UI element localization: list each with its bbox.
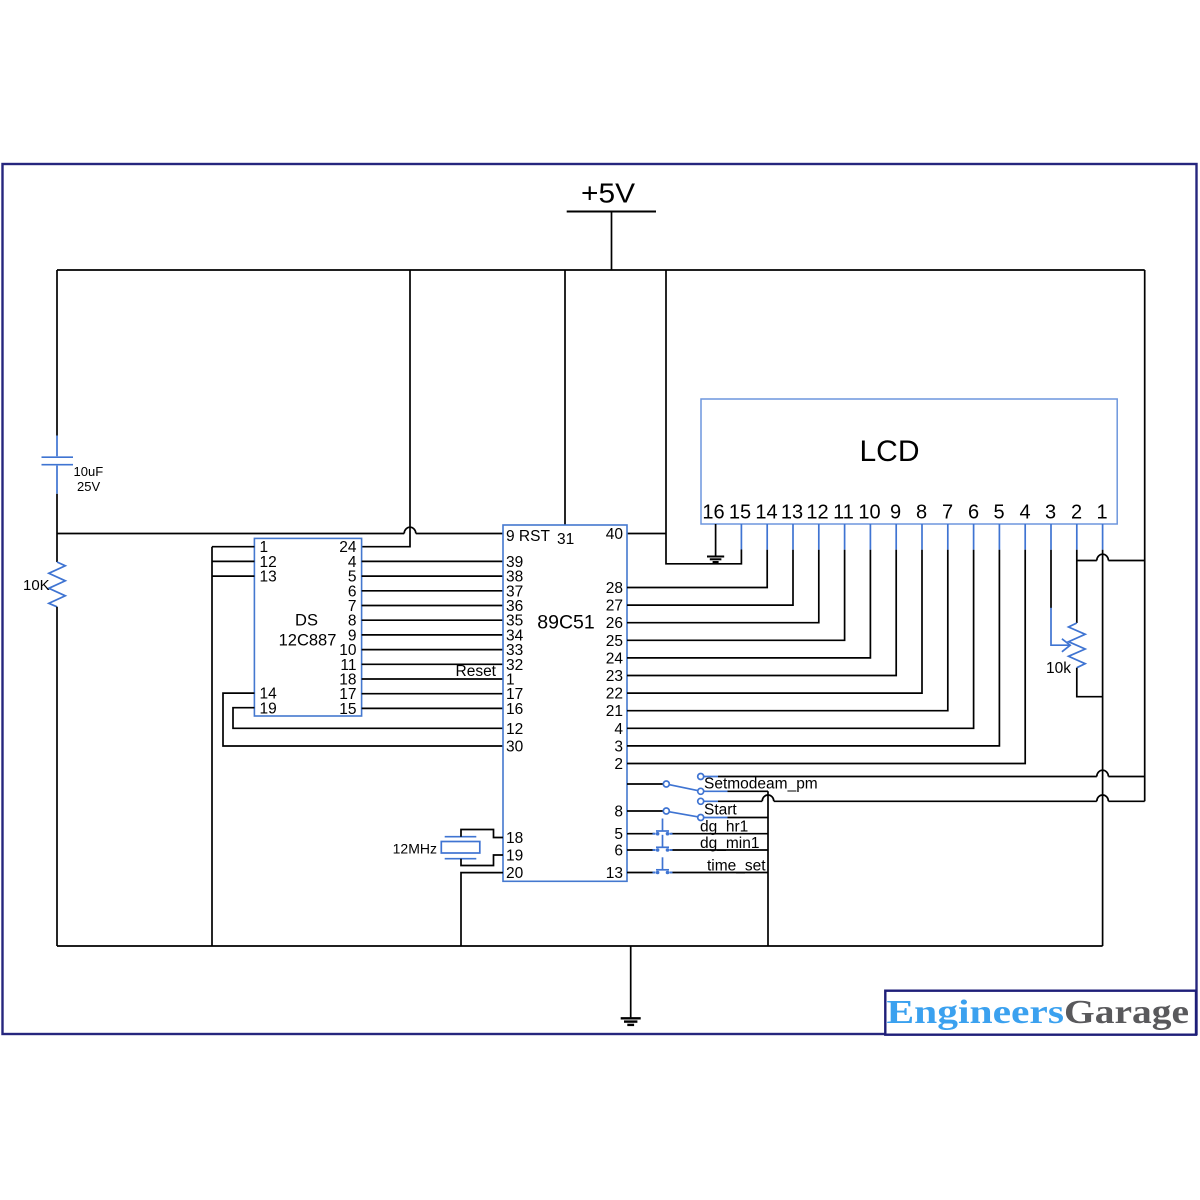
svg-text:4: 4 (1019, 502, 1030, 524)
svg-text:4: 4 (614, 721, 623, 738)
switch SW1 Setmodeam_pm SPDT (663, 774, 727, 795)
wire hop over LCD pin 1 vertical (1097, 554, 1109, 560)
wire ground stem (630, 946, 632, 1018)
svg-text:26: 26 (606, 615, 623, 632)
wire bottom ground rail (57, 945, 1103, 947)
wire crystal top to 89C51 pin 18 (461, 830, 503, 838)
svg-text:Setmodeam_pm: Setmodeam_pm (704, 776, 818, 793)
logo EngineersGarage (885, 991, 1196, 1035)
svg-text:24: 24 (606, 650, 624, 667)
svg-text:13: 13 (781, 502, 803, 524)
svg-text:10uF: 10uF (74, 464, 104, 479)
svg-text:3: 3 (614, 738, 623, 755)
wire right VCC drop to LCD pin 2 branch (1144, 270, 1146, 561)
wire DS pin 14 to 89C51 pin 30 (223, 693, 503, 746)
wire 89C51 pin 27 to LCD pin 13 (627, 550, 793, 605)
wire DS pin 19 to 89C51 pin 12 (233, 708, 503, 729)
wire 89C51 pin 40 to VCC branch (627, 533, 666, 535)
svg-text:15: 15 (339, 701, 356, 718)
crystal X1 12MHz (441, 837, 480, 859)
U2 right pin labels (606, 526, 624, 882)
svg-text:16: 16 (702, 502, 724, 524)
wire 89C51 pin 13 row time_set (627, 872, 768, 874)
svg-text:LCD: LCD (859, 435, 919, 468)
wire potentiometer bottom to LCD pin1 ground line (1077, 668, 1103, 697)
wire reset net to 89C51 pin 9 with hop (57, 533, 503, 535)
wire right VCC loop vertical (1144, 561, 1146, 802)
svg-text:20: 20 (506, 865, 524, 882)
wire 89C51 pin 24 to LCD pin 10 (627, 550, 870, 658)
LCD pin number labels 16..1 (702, 502, 1107, 524)
svg-text:dg_min1: dg_min1 (700, 835, 759, 852)
svg-text:22: 22 (606, 686, 623, 703)
wire 89C51 pin 5 row dg_hr1 (627, 833, 768, 835)
svg-text:16: 16 (506, 701, 523, 718)
border frame (3, 164, 1197, 1034)
U2 left pin labels (506, 554, 524, 882)
wire 89C51 pin 28 to LCD pin 14 (627, 550, 767, 588)
wire hop over LCD pin1 line (1097, 770, 1109, 776)
svg-text:27: 27 (606, 598, 623, 615)
svg-text:10: 10 (858, 502, 880, 524)
svg-text:DS: DS (295, 612, 318, 630)
svg-text:8: 8 (916, 502, 927, 524)
ground symbol main (621, 1018, 641, 1025)
svg-text:12: 12 (806, 502, 828, 524)
svg-text:dg_hr1: dg_hr1 (700, 819, 748, 836)
U1 right pin labels 24 4 5 6 7 8 9 10 11 18 17 15 (339, 539, 357, 718)
LCD pin 16 lead to ground (715, 524, 717, 556)
wire SW1 upper throw to VCC loop with hop (718, 776, 1145, 778)
svg-text:Engineers: Engineers (887, 994, 1065, 1031)
wire LCD pin2 VCC link with hop over pin1 line (1077, 560, 1145, 562)
pushbutton SW3 dg_hr1 (653, 819, 673, 836)
wire VCC drop to 89C51 pin 40 and LCD pin 15 (666, 270, 741, 564)
svg-text:89C51: 89C51 (537, 612, 594, 634)
svg-text:31: 31 (557, 531, 574, 548)
svg-text:28: 28 (606, 580, 623, 597)
svg-text:9: 9 (890, 502, 901, 524)
wire 89C51 pin 25 to LCD pin 11 (627, 550, 845, 641)
ground symbol under LCD pin 16 (707, 557, 724, 563)
node +5V supply symbol (567, 178, 656, 271)
svg-text:25V: 25V (77, 479, 100, 494)
wire 89C51 pin 23 to LCD pin 9 (627, 550, 896, 676)
svg-text:12MHz: 12MHz (393, 841, 437, 857)
svg-text:25: 25 (606, 633, 623, 650)
svg-text:10K: 10K (23, 577, 50, 594)
svg-text:30: 30 (506, 739, 524, 756)
svg-text:19: 19 (506, 848, 523, 865)
potentiometer RV1 wiper arm (1051, 608, 1070, 652)
wire 89C51 to switch SW1 common (627, 783, 663, 785)
LCD blue pin stubs (741, 524, 1102, 550)
wire DS pins 1 12 13 to ground vertical (212, 547, 254, 576)
wire 89C51 pin 6 row dg_min1 (627, 849, 768, 851)
wire capacitor to reset node (56, 494, 58, 562)
svg-text:Garage: Garage (1064, 994, 1189, 1031)
wire 89C51 pin 3 to LCD pin 5 (627, 550, 999, 746)
svg-text:14: 14 (755, 502, 777, 524)
svg-text:18: 18 (506, 830, 523, 847)
wire resistor bottom to ground rail (56, 607, 58, 946)
svg-text:5: 5 (614, 826, 623, 843)
wire SW1 lower throw to ground vertical (728, 790, 769, 792)
wire crystal bottom to 89C51 pin 19 (461, 855, 503, 866)
potentiometer RV1 10k element (1069, 623, 1086, 668)
wire VCC drop to DS pin 24 (362, 270, 410, 547)
svg-text:10k: 10k (1046, 660, 1071, 677)
wire switch ground vertical to bottom rail (767, 791, 769, 946)
svg-text:Reset: Reset (456, 663, 497, 680)
svg-text:23: 23 (606, 668, 623, 685)
svg-text:5: 5 (993, 502, 1004, 524)
wire 89C51 pin 22 to LCD pin 8 (627, 550, 922, 693)
svg-text:2: 2 (614, 756, 623, 773)
wire LCD pin 1 to bottom ground rail (1102, 550, 1104, 946)
U1 left pin labels 1 12 13 14 19 (260, 539, 278, 717)
svg-text:7: 7 (942, 502, 953, 524)
wire SW2 lower throw to ground vertical (728, 817, 769, 819)
svg-text:6: 6 (614, 843, 623, 860)
wire VCC top rail (57, 269, 1145, 271)
wire left VCC drop to capacitor (56, 270, 58, 436)
svg-text:6: 6 (968, 502, 979, 524)
svg-text:3: 3 (1045, 502, 1056, 524)
svg-text:time_set: time_set (707, 857, 766, 874)
svg-text:Start: Start (704, 802, 737, 819)
wire 89C51 pin 4 to LCD pin 6 (627, 550, 974, 729)
svg-text:13: 13 (260, 569, 277, 586)
svg-text:15: 15 (729, 502, 751, 524)
capacitor C1 (42, 436, 74, 494)
svg-text:+5V: +5V (581, 178, 636, 209)
wire hop over LCD pin1 line right (1097, 795, 1109, 801)
wire VCC drop to 89C51 pin 31 (564, 270, 566, 525)
svg-text:40: 40 (606, 526, 624, 543)
wire LCD pin 2 lead to potentiometer top (1076, 550, 1078, 623)
wire hop over DS VCC drop (404, 527, 416, 533)
svg-text:8: 8 (614, 804, 623, 821)
svg-text:21: 21 (606, 703, 623, 720)
svg-text:12: 12 (506, 721, 523, 738)
svg-text:1: 1 (1096, 502, 1107, 524)
pushbutton SW4 dg_min1 (653, 835, 673, 852)
wire 89C51 pin 2 to LCD pin 4 (627, 550, 1025, 764)
wire DS data bus to 89C51 rows 4-39 5-38 6-37 7-36 8-35 9-34 10-33 11-32 18-1 17-17 15-16 (362, 561, 503, 708)
wire 89C51 pin 20 to bottom rail (461, 873, 503, 946)
pushbutton SW5 time_set (653, 857, 673, 874)
svg-text:2: 2 (1071, 502, 1082, 524)
wire 89C51 pin 26 to LCD pin 12 (627, 550, 819, 623)
wire LCD pin 3 to potentiometer wiper (1050, 550, 1052, 608)
IC U1 DS 12C887 box (254, 538, 361, 716)
svg-text:11: 11 (833, 502, 854, 524)
svg-text:13: 13 (606, 865, 623, 882)
resistor R1 10K (49, 562, 66, 607)
svg-text:19: 19 (260, 700, 277, 717)
IC U2 89C51 box (503, 525, 627, 881)
wire ground vertical left of DS to bottom rail (211, 547, 213, 946)
svg-text:9 RST: 9 RST (506, 528, 550, 545)
svg-text:12C887: 12C887 (279, 632, 337, 650)
wire 89C51 pin 8 to switch SW2 common (627, 810, 663, 812)
wire 89C51 pin 21 to LCD pin 7 (627, 550, 948, 711)
LCD module box (701, 399, 1117, 524)
wire SW2 upper throw to VCC loop with hops (718, 800, 1145, 802)
switch SW2 Start SPDT (663, 798, 727, 820)
wire hop over switch ground vertical (762, 795, 774, 801)
